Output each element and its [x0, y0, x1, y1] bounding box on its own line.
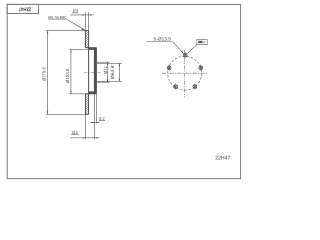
svg-text:32.5: 32.5 [72, 130, 79, 135]
32.5 ext line left [84, 114, 86, 139]
svg-text:Ø153.8: Ø153.8 [65, 68, 70, 83]
drawing frame [7, 4, 240, 178]
dia64.8 arrows [119, 63, 120, 66]
top cap [85, 30, 88, 32]
dia 279.8 dim line [47, 31, 49, 115]
svg-text:22H47: 22H47 [19, 5, 32, 11]
dia72 arrows [107, 62, 108, 65]
bottom cap [85, 113, 88, 115]
hatch friction ring bottom [85, 94, 88, 115]
dia153.8 arrows [70, 49, 71, 52]
arrowheads [47, 14, 120, 138]
8.2 ext line right [95, 94, 97, 124]
box leader [187, 44, 197, 53]
10.9 underline [72, 12, 78, 14]
hatch top step [89, 48, 97, 50]
svg-text:8.2: 8.2 [99, 116, 105, 121]
32.5 dim line [70, 137, 99, 139]
section centerline [84, 71, 101, 73]
bolt hole lower-right [193, 83, 197, 90]
hatch friction ring top [85, 31, 88, 48]
10.9 arrows (outside) [83, 14, 86, 15]
hat top step outer [85, 47, 96, 49]
dia279.8 arrows [47, 31, 48, 34]
disc inboard face (right, full) [88, 31, 90, 115]
flange outboard face [95, 48, 97, 94]
bolt hole lower-left [174, 83, 178, 90]
hatch flange [94, 48, 96, 94]
dia 64.8 ext lines [97, 62, 122, 64]
label leader [173, 42, 184, 54]
svg-text:22H47: 22H47 [215, 156, 230, 162]
min thickness leader [67, 19, 85, 30]
svg-text:10.9: 10.9 [73, 8, 79, 13]
8.2 underline [99, 120, 105, 122]
flange inboard face [93, 49, 95, 92]
label underline [147, 41, 173, 43]
marking box [197, 40, 207, 45]
pitch circle (dashed) [168, 56, 202, 90]
title box top-left [7, 4, 38, 13]
10.9 dim line [70, 14, 93, 16]
leader arrow [181, 51, 184, 54]
8.2 dim line [90, 122, 99, 124]
disc outboard face (left) bottom segment [84, 94, 86, 115]
32.5 arrows (outside) [83, 137, 86, 138]
8.2 arrows (outside) [92, 122, 95, 123]
bolt hole top [183, 52, 187, 59]
min thickness underline [48, 18, 67, 20]
8.2 ext line left [93, 94, 95, 139]
hatch bottom step [89, 92, 97, 94]
svg-text:5-Ø13.9: 5-Ø13.9 [154, 37, 172, 42]
dia 279.8 ext lines [46, 30, 85, 32]
hat top step inner [89, 48, 95, 50]
svg-text:Ø64.8: Ø64.8 [110, 65, 115, 79]
dia 64.8 dim line [119, 63, 121, 81]
disc outboard face (left) top segment [84, 31, 86, 48]
32.5 underline [71, 134, 79, 136]
horizontal centerline [162, 72, 208, 74]
vertical centerline [184, 50, 186, 97]
svg-text:MIN. THI. 9MM: MIN. THI. 9MM [48, 15, 66, 19]
dia 72 dim line [107, 62, 109, 82]
bolt hole upper-right [199, 64, 203, 71]
svg-text:Ø279.8: Ø279.8 [41, 67, 46, 81]
dia 153.8 dim line [70, 49, 72, 93]
dia 153.8 ext lines [69, 48, 88, 50]
min-thi leader arrow [81, 28, 85, 30]
hat bottom step outer [85, 93, 96, 95]
marking box content [198, 41, 202, 43]
dia 72 ext lines [96, 61, 109, 63]
10.9 ext lines [84, 12, 86, 30]
bolt hole upper-left [167, 64, 171, 71]
hat bottom step inner [89, 91, 95, 93]
svg-text:Ø72: Ø72 [103, 66, 108, 74]
